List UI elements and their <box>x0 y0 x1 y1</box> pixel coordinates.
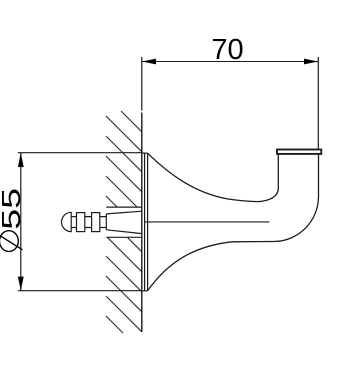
wall surface line <box>141 113 143 333</box>
dimension 55: top arrow <box>18 153 24 167</box>
svg-text:70: 70 <box>211 34 243 66</box>
screw neck segments <box>71 217 106 228</box>
hook end cap <box>277 150 321 154</box>
screw ring 1 <box>77 213 85 232</box>
dimension 70: dimension line <box>142 61 318 63</box>
screw ring 2 <box>92 213 100 232</box>
flange top edge <box>142 152 148 154</box>
flange back plate lines <box>145 153 148 291</box>
svg-text:55: 55 <box>0 188 26 230</box>
drilled hole top line <box>106 206 142 208</box>
flange bottom edge <box>142 290 148 292</box>
diameter symbol <box>0 231 23 252</box>
wall plug body <box>106 211 142 233</box>
drilled hole bottom line <box>106 236 142 238</box>
dimension 55: bottom arrow <box>18 277 24 291</box>
dimension 70: left arrow <box>142 59 156 65</box>
dimension 55: extension line bottom <box>18 290 142 292</box>
dimension 55: dimension line <box>20 153 22 291</box>
dimension 70: extension line right <box>317 57 319 149</box>
screw head dome <box>62 212 72 231</box>
dimension 70: right arrow <box>304 59 318 65</box>
hook top profile (bell curve to inner edge) <box>148 153 279 201</box>
centerline <box>145 221 269 223</box>
dimension 70: extension line left <box>141 57 143 111</box>
wall hatching <box>106 111 142 333</box>
dimension 55: extension line top <box>18 152 142 154</box>
hook bottom profile (bell curve to outer edge) <box>148 155 319 291</box>
